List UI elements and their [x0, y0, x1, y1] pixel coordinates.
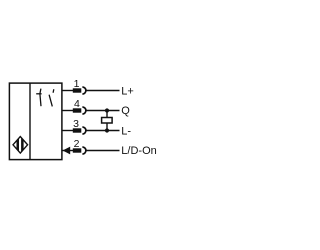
- input arrow on pin 2 wire: [63, 147, 71, 155]
- pin 2 connector plug: [73, 147, 86, 154]
- pin number 1: [74, 78, 80, 90]
- pin number 3: [73, 118, 79, 130]
- NO contact switch: [49, 89, 54, 106]
- wire pin 2 to L/D-On: [62, 150, 120, 152]
- box divider line: [29, 83, 31, 160]
- proximity sensor diamond symbol: [13, 137, 28, 154]
- sensor box outline: [9, 83, 62, 160]
- NC contact switch: [36, 89, 41, 107]
- wire pin 4 to Q: [62, 110, 120, 112]
- pin number 2: [74, 138, 80, 150]
- junction dot on L- line: [105, 128, 109, 132]
- pin 1 connector plug: [73, 87, 86, 94]
- label Q: [121, 105, 130, 117]
- label L-: [121, 125, 131, 137]
- load resistor between Q and L-: [102, 111, 113, 131]
- svg-text:Q: Q: [121, 105, 130, 117]
- wire pin 1 to L+: [62, 90, 120, 92]
- svg-text:L/D-On: L/D-On: [121, 145, 156, 157]
- pin number 4: [74, 98, 80, 110]
- wire pin 3 to L-: [62, 130, 120, 132]
- junction dot on Q line: [105, 108, 109, 112]
- label L/D-On: [121, 145, 156, 157]
- svg-text:3: 3: [73, 118, 79, 130]
- svg-text:2: 2: [74, 138, 80, 150]
- svg-text:L-: L-: [121, 125, 131, 137]
- svg-text:4: 4: [74, 98, 80, 110]
- svg-text:L+: L+: [121, 86, 134, 98]
- label L+: [121, 86, 134, 98]
- svg-text:1: 1: [74, 78, 80, 90]
- pin 4 connector plug: [73, 107, 86, 114]
- pin 3 connector plug: [73, 127, 86, 134]
